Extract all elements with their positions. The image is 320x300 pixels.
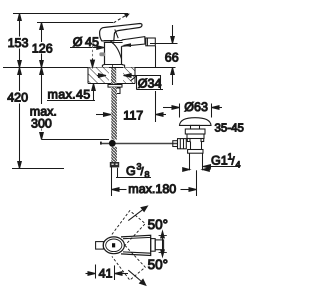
waste side nut — [178, 139, 187, 149]
plan: swing double arrow — [159, 231, 167, 256]
plan: aerator — [155, 240, 163, 250]
plan: body — [121, 235, 151, 255]
faucet lever handle — [100, 24, 142, 41]
dimension max.300 — [40, 68, 109, 140]
faucet base — [102, 65, 104, 68]
pop-up rod end tick — [100, 142, 102, 145]
flexible hose lower — [111, 147, 117, 162]
tailpiece upper — [190, 142, 192, 150]
svg-text:G1: G1 — [211, 154, 228, 168]
deck cross-section hatched right part — [123, 68, 135, 84]
spout root curve — [111, 42, 122, 59]
dimension diameter 63 — [163, 104, 222, 118]
faucet body — [104, 43, 106, 65]
deck left section edge — [87, 68, 89, 84]
svg-text:Ø34: Ø34 — [138, 77, 162, 91]
spout tip extension line — [155, 46, 157, 68]
dimension 41 — [86, 265, 129, 281]
aerator inner line — [146, 38, 148, 46]
deck right section edge — [134, 68, 136, 84]
faucet cartridge collar — [104, 40, 122, 42]
dimension 66 — [150, 25, 178, 85]
plan: pull-rod tab — [96, 242, 104, 250]
waste leg left — [187, 139, 190, 142]
svg-text:41: 41 — [99, 267, 113, 281]
aerator — [146, 38, 156, 46]
plan: body inner top — [123, 237, 151, 238]
label max.45 with leader — [47, 84, 95, 101]
wire top reference line (lever raised level) — [13, 13, 128, 15]
waste side collar — [173, 141, 178, 147]
waste leg right — [201, 139, 204, 142]
wire second reference line (lever rest level) — [37, 22, 113, 24]
svg-text:G: G — [126, 164, 136, 178]
hole dimension arrows (deck hole for shank) — [97, 74, 137, 78]
label box diameter 34 — [131, 76, 164, 90]
dimension 420 — [12, 68, 64, 169]
svg-text:420: 420 — [7, 91, 28, 105]
label G3/8 with leader — [116, 168, 151, 178]
spout — [122, 37, 145, 47]
svg-text:max.180: max.180 — [128, 182, 176, 196]
deck bottom line — [88, 83, 135, 85]
plan: knob inner — [106, 239, 122, 252]
threaded shank through deck — [111, 68, 116, 85]
svg-text:Ø63: Ø63 — [184, 100, 208, 114]
plan: knob outer — [103, 237, 124, 254]
tailpiece pipe — [189, 153, 191, 170]
dimension 153 — [18, 14, 22, 68]
svg-text:Ø 45: Ø 45 — [73, 35, 99, 49]
tailpiece centerline extension — [196, 170, 198, 196]
plan: lower swing leader — [128, 270, 146, 285]
deck cross-section hatched left part — [88, 68, 109, 84]
plan: rotated position upper (dashed) — [111, 211, 146, 247]
deck top line — [3, 67, 176, 69]
svg-text:300: 300 — [31, 117, 52, 131]
svg-text:4: 4 — [236, 160, 241, 170]
plan: upper swing leader — [128, 206, 147, 221]
pipe thread arrows — [183, 168, 211, 172]
svg-text:8: 8 — [145, 170, 150, 180]
svg-text:max.45: max.45 — [48, 88, 91, 102]
dimension 126 — [40, 23, 44, 68]
dimension 117 — [96, 91, 166, 122]
plan: collar — [151, 239, 156, 252]
dimension max.180 — [112, 166, 197, 196]
lever raised position (dashed) — [114, 14, 129, 23]
plan: rotated position lower (dashed) — [111, 244, 146, 280]
svg-text:50°: 50° — [148, 257, 168, 272]
svg-text:35-45: 35-45 — [215, 123, 244, 135]
down arrow indicator at deck — [91, 46, 95, 68]
tailpiece nut bar — [188, 150, 203, 154]
lever raised arrow tip — [124, 14, 130, 18]
pop-up waste flange dome — [180, 118, 212, 126]
label G1 1/4 with leader — [203, 165, 240, 169]
svg-text:66: 66 — [165, 51, 179, 65]
plan: pivot dot — [112, 243, 115, 247]
grey pull-rod tab on body — [99, 52, 105, 56]
base centerline tick — [112, 65, 114, 70]
plan: body inner bottom — [123, 252, 151, 253]
waste collar — [191, 125, 200, 129]
pop-up rod ball joint — [109, 140, 116, 147]
pop-up rod — [100, 143, 177, 145]
lever knob crease — [115, 29, 118, 38]
label diameter 45 with leader arrow — [70, 46, 104, 50]
waste mid body — [187, 134, 204, 139]
waste upper body — [185, 129, 205, 134]
svg-text:117: 117 — [123, 109, 143, 123]
mounting washer — [108, 85, 122, 88]
svg-text:126: 126 — [32, 42, 53, 56]
svg-text:50°: 50° — [148, 217, 168, 232]
flow arrow under spout — [123, 43, 132, 47]
flexible hose upper — [111, 87, 117, 140]
svg-text:153: 153 — [8, 36, 29, 50]
hose end nut — [110, 162, 119, 167]
small fitting on shank — [116, 88, 120, 94]
